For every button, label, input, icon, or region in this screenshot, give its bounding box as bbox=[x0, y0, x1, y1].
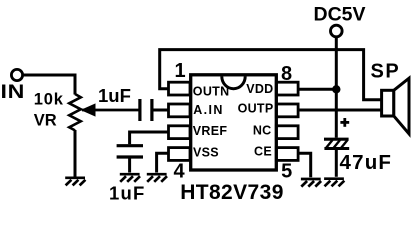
wire DC5V vertical to C3 bbox=[335, 37, 338, 138]
svg-text:OUTN: OUTN bbox=[193, 85, 230, 99]
svg-text:1uF: 1uF bbox=[109, 183, 146, 204]
svg-text:OUTP: OUTP bbox=[238, 102, 274, 116]
wiper arrowhead bbox=[81, 103, 96, 116]
ground (C3) bbox=[324, 179, 344, 187]
svg-text:SP: SP bbox=[371, 60, 401, 82]
C3 plus polarity mark bbox=[340, 118, 349, 127]
pin 5 box bbox=[276, 148, 298, 161]
potentiometer VR 10k (zigzag) bbox=[69, 94, 81, 130]
ground (C2) bbox=[120, 174, 140, 182]
ground (CE) bbox=[301, 179, 321, 187]
wire OUTP pin 7 to speaker bbox=[298, 109, 381, 112]
svg-text:CE: CE bbox=[254, 145, 272, 159]
wire C3 to ground bbox=[335, 149, 338, 177]
svg-text:8: 8 bbox=[281, 63, 292, 85]
speaker SP bbox=[382, 90, 394, 116]
wire VREF pin to C2 bbox=[130, 132, 169, 144]
pin 6 box bbox=[276, 126, 298, 139]
pin 2 box bbox=[169, 104, 191, 117]
wire VDD pin 8 to supply node bbox=[298, 88, 336, 91]
input terminal IN bbox=[11, 69, 22, 80]
svg-text:NC: NC bbox=[253, 124, 272, 138]
pin 1 box bbox=[169, 82, 191, 95]
svg-text:VREF: VREF bbox=[193, 124, 228, 138]
svg-text:1: 1 bbox=[174, 60, 185, 82]
DC5V terminal bbox=[331, 25, 343, 37]
svg-text:4: 4 bbox=[173, 161, 185, 183]
junction node dot bbox=[332, 85, 340, 93]
svg-text:VDD: VDD bbox=[246, 82, 273, 96]
capacitor C1 1uF (series) bbox=[140, 99, 152, 121]
svg-text:DC5V: DC5V bbox=[314, 3, 366, 25]
ground (pot) bbox=[65, 178, 85, 186]
svg-text:47uF: 47uF bbox=[340, 151, 393, 174]
wire CE pin 5 to ground bbox=[298, 153, 311, 177]
svg-text:A.IN: A.IN bbox=[193, 103, 224, 117]
pin 7 box bbox=[276, 104, 298, 117]
capacitor C2 1uF (shunt at VREF) bbox=[117, 146, 143, 157]
svg-text:1uF: 1uF bbox=[98, 85, 131, 106]
IC notch bbox=[222, 77, 245, 89]
wire IN to pot top bbox=[23, 75, 75, 95]
pin 3 box bbox=[169, 126, 191, 139]
wire C2 to ground bbox=[128, 159, 131, 173]
wire OUTN feedback loop to speaker top bbox=[160, 50, 382, 100]
svg-text:5: 5 bbox=[281, 161, 292, 183]
svg-text:IN: IN bbox=[1, 82, 26, 103]
svg-text:VR: VR bbox=[34, 112, 57, 130]
ground (VSS) bbox=[147, 174, 167, 182]
capacitor C3 47uF (electrolytic) bbox=[324, 139, 349, 148]
wire pot bottom to ground bbox=[74, 130, 77, 177]
wiper arrow wire bbox=[82, 109, 139, 112]
svg-text:HT82V739: HT82V739 bbox=[180, 181, 284, 204]
IC U1 HT82V739 body bbox=[191, 75, 277, 170]
pin 8 box bbox=[276, 82, 298, 95]
svg-text:VSS: VSS bbox=[193, 146, 219, 160]
pin 4 box bbox=[169, 148, 191, 161]
wire C1 to A.IN pin bbox=[154, 109, 170, 112]
C3 hatched plate bbox=[326, 140, 348, 148]
svg-text:10k: 10k bbox=[34, 91, 64, 109]
wire VSS pin to ground bbox=[157, 153, 169, 172]
